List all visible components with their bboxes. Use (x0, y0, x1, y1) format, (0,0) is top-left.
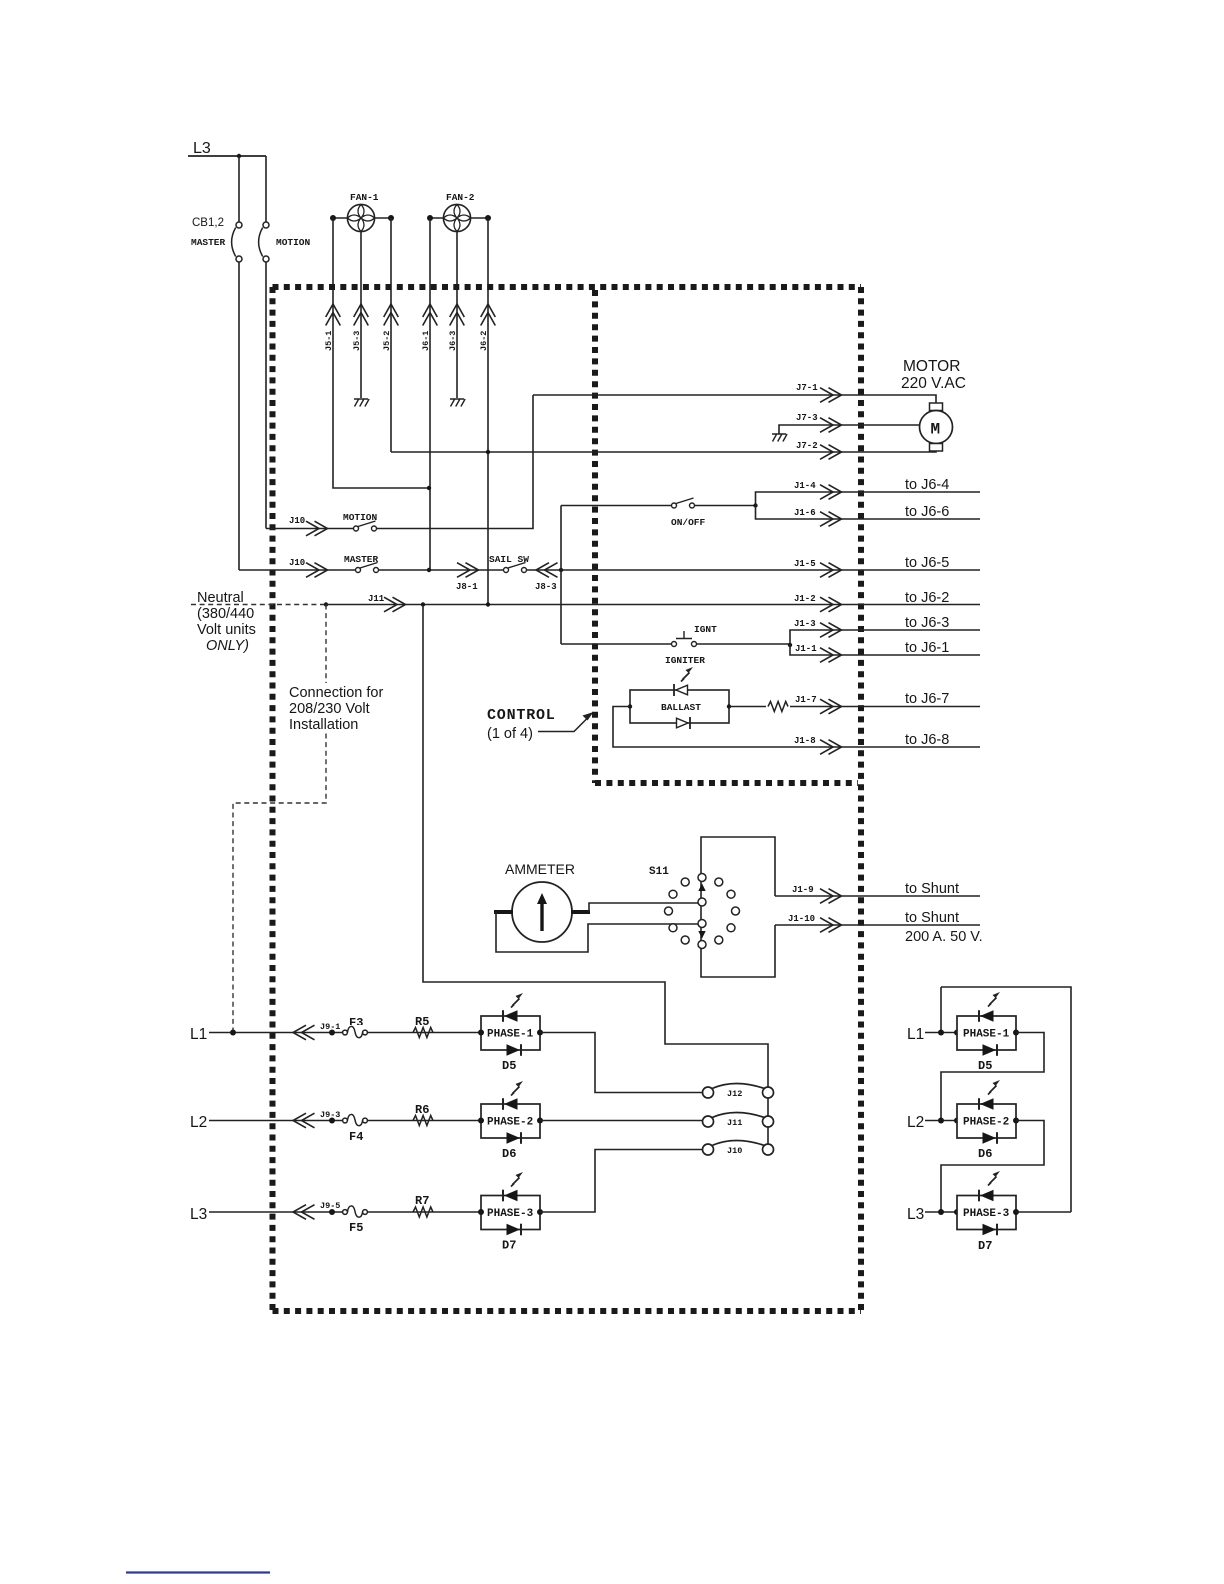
switch MOTION interlock (354, 521, 377, 531)
node ballast right (727, 704, 731, 708)
svg-text:Installation: Installation (289, 717, 358, 733)
wire neutral drop to jumper bus (423, 605, 768, 1088)
svg-text:J1-7: J1-7 (795, 695, 817, 705)
svg-text:PHASE-3: PHASE-3 (963, 1208, 1010, 1220)
svg-text:MOTION: MOTION (276, 237, 311, 248)
wire right diagram top chain (941, 987, 1071, 1212)
svg-text:L3: L3 (907, 1206, 924, 1223)
svg-text:to J6-6: to J6-6 (905, 504, 949, 520)
wire J5-1 column (333, 218, 429, 488)
wire J1-9 row (775, 895, 980, 897)
svg-text:J10: J10 (289, 516, 305, 526)
wire FAN-2 bus (430, 217, 488, 219)
svg-text:J7-3: J7-3 (796, 413, 818, 423)
node on/off branch junction (753, 503, 757, 507)
svg-text:to J6-7: to J6-7 (905, 691, 949, 707)
wire phase-3 right out (1016, 1211, 1071, 1213)
indicator arrow D5 (511, 993, 523, 1008)
wire master breaker to row (238, 262, 240, 570)
svg-text:AMMETER: AMMETER (505, 861, 575, 877)
wire master switch to sail switch (379, 569, 503, 571)
label Connection for 208/230 (286, 683, 382, 731)
fuse F5 (347, 1205, 364, 1220)
wire J6-1 column (429, 218, 431, 570)
enclosure dashed control divider vertical (592, 290, 598, 783)
svg-text:F5: F5 (349, 1221, 363, 1235)
svg-text:MASTER: MASTER (191, 237, 226, 248)
node neutral J6-2 junction (486, 602, 490, 606)
terminal ammeter right (571, 910, 590, 914)
node J5-1/J6-1 junction (427, 486, 431, 490)
svg-text:M: M (931, 421, 941, 439)
svg-text:J5-1: J5-1 (324, 331, 334, 351)
svg-text:PHASE-2: PHASE-2 (963, 1117, 1009, 1129)
svg-text:Volt units: Volt units (197, 622, 256, 638)
jumper J10 (703, 1141, 774, 1156)
svg-text:CB1,2: CB1,2 (192, 217, 224, 229)
svg-text:J1-1: J1-1 (795, 644, 817, 654)
svg-text:L3: L3 (193, 140, 211, 157)
svg-text:CONTROL: CONTROL (487, 707, 556, 724)
wire phase-3 out to J10 (540, 1150, 703, 1213)
node sail output junction (559, 568, 563, 572)
svg-text:J7-2: J7-2 (796, 441, 818, 451)
switch ON/OFF (672, 498, 695, 508)
svg-text:PHASE-3: PHASE-3 (487, 1208, 534, 1220)
svg-text:L1: L1 (907, 1026, 924, 1043)
diode ballast top (674, 684, 688, 696)
resistor ballast series (766, 699, 790, 714)
wire J1-4 row (756, 492, 981, 506)
svg-text:J8-3: J8-3 (535, 582, 557, 592)
svg-text:FAN-2: FAN-2 (446, 192, 475, 203)
jumper J11 (703, 1113, 774, 1128)
svg-text:to Shunt: to Shunt (905, 910, 959, 926)
svg-text:J10: J10 (727, 1146, 742, 1156)
pin J8-1 connector (457, 563, 479, 578)
wire FAN-1 bus (333, 217, 391, 219)
wire J1-1 row (790, 645, 980, 655)
svg-text:Neutral: Neutral (197, 590, 244, 606)
svg-text:(1 of 4): (1 of 4) (487, 726, 533, 742)
svg-text:R5: R5 (415, 1015, 429, 1029)
svg-text:208/230 Volt: 208/230 Volt (289, 701, 370, 717)
svg-text:ONLY): ONLY) (206, 638, 249, 654)
module PHASE-1 left (481, 1010, 540, 1056)
svg-text:L2: L2 (190, 1114, 207, 1131)
svg-text:to J6-3: to J6-3 (905, 615, 949, 631)
svg-text:PHASE-1: PHASE-1 (487, 1029, 534, 1041)
svg-text:D6: D6 (978, 1147, 992, 1161)
wire L2 row (209, 1120, 481, 1122)
wire J1-3 row (790, 630, 980, 645)
pin J9-5 connector (293, 1205, 315, 1220)
svg-text:J11: J11 (727, 1118, 742, 1128)
svg-text:L1: L1 (190, 1026, 207, 1043)
pin J8-3 connector (536, 563, 558, 578)
wire J5-2 column (390, 218, 392, 452)
wire L3 row (209, 1211, 481, 1213)
svg-text:J1-10: J1-10 (788, 914, 815, 924)
svg-text:BALLAST: BALLAST (661, 702, 701, 713)
wire J5-3 column (360, 232, 362, 399)
svg-text:D7: D7 (978, 1239, 992, 1253)
svg-text:L2: L2 (907, 1114, 924, 1131)
svg-text:J11: J11 (368, 594, 385, 604)
pin J6-3 connector (450, 304, 465, 326)
pin J6-1 connector (423, 304, 438, 326)
wire ammeter left loop to wiper B (496, 912, 699, 952)
wire on/off output (695, 505, 756, 507)
svg-text:D5: D5 (978, 1059, 992, 1073)
svg-text:J7-1: J7-1 (796, 383, 818, 393)
module PHASE-2 left (481, 1098, 540, 1144)
svg-text:J1-4: J1-4 (794, 481, 816, 491)
pin J9-1 connector (293, 1025, 315, 1040)
svg-text:D6: D6 (502, 1147, 516, 1161)
wire MASTER row left (239, 569, 355, 571)
switch IGNT pushbutton (672, 631, 697, 647)
svg-text:PHASE-1: PHASE-1 (963, 1029, 1010, 1041)
ground J7-3 (772, 434, 787, 442)
ground FAN-2 (450, 399, 465, 407)
wire sail junction riser (560, 506, 562, 645)
svg-text:MOTION: MOTION (343, 512, 378, 523)
wire L1 right row (925, 1032, 957, 1034)
svg-text:J12: J12 (727, 1089, 742, 1099)
svg-text:220 V.AC: 220 V.AC (901, 375, 966, 392)
enclosure dashed chassis box (273, 284, 862, 290)
breaker CB1 MASTER (232, 222, 242, 262)
wire J7-2 row (391, 451, 936, 452)
wire L1 row (209, 1032, 481, 1034)
svg-text:to J6-2: to J6-2 (905, 590, 949, 606)
svg-text:J5-2: J5-2 (382, 331, 392, 351)
svg-text:J6-3: J6-3 (448, 331, 458, 351)
wire MOTION row (266, 528, 353, 530)
wire L2 right row (925, 1120, 957, 1122)
wire J1-6 row (756, 506, 981, 520)
svg-text:R7: R7 (415, 1194, 429, 1208)
wire ammeter right to wiper A (589, 903, 699, 912)
wire motion switch to J7-1 riser (377, 395, 533, 529)
wire igniter output (697, 643, 791, 645)
terminal ammeter left (494, 910, 513, 914)
jumper J12 (703, 1084, 774, 1099)
svg-text:J6-2: J6-2 (479, 331, 489, 351)
node neutral drop junction (421, 602, 425, 606)
indicator arrow igniter (681, 667, 693, 682)
enclosure dashed control divider horizontal (595, 780, 858, 786)
wire motion breaker to row (265, 262, 267, 529)
indicator arrow D6 (511, 1081, 523, 1096)
svg-text:Connection for: Connection for (289, 685, 383, 701)
svg-text:F4: F4 (349, 1130, 363, 1144)
svg-text:J6-1: J6-1 (421, 331, 431, 351)
fuse F4 (347, 1113, 364, 1128)
breaker CB2 MOTION (259, 222, 269, 262)
diode ballast bottom (677, 717, 691, 729)
wire J1-8 row (613, 707, 980, 748)
wire CB2 drop from L3 (265, 156, 267, 222)
svg-text:J1-2: J1-2 (794, 594, 816, 604)
svg-text:to Shunt: to Shunt (905, 881, 959, 897)
pin J5-2 connector (384, 304, 399, 326)
node ballast left (628, 704, 632, 708)
indicator arrow D5 right (988, 992, 1000, 1007)
svg-text:J1-5: J1-5 (794, 559, 816, 569)
svg-text:PHASE-2: PHASE-2 (487, 1117, 533, 1129)
switch S11 wiper A (698, 898, 706, 906)
node J6-2/J7-2 junction (486, 450, 490, 454)
wire L3 bus (188, 155, 266, 157)
switch MASTER interlock (356, 563, 379, 573)
wire J7-1 row to motor (533, 395, 936, 403)
wire J7-3 row (779, 425, 920, 434)
wire L3 right row (925, 1211, 957, 1213)
svg-text:D5: D5 (502, 1059, 516, 1073)
indicator arrow D7 right (988, 1171, 1000, 1186)
svg-text:ON/OFF: ON/OFF (671, 517, 706, 528)
svg-text:MOTOR: MOTOR (903, 358, 960, 375)
svg-text:J1-3: J1-3 (794, 619, 816, 629)
wire phase-2 right out (941, 1121, 1044, 1213)
svg-text:IGNT: IGNT (694, 624, 717, 635)
wire phase-1 out to J12 (540, 1033, 703, 1093)
svg-text:J1-8: J1-8 (794, 736, 816, 746)
module PHASE-3 right (957, 1190, 1016, 1236)
wire J6-3 column (456, 232, 458, 399)
svg-text:to J6-5: to J6-5 (905, 555, 949, 571)
indicator arrow D6 right (988, 1080, 1000, 1095)
wire phase-1 right out (941, 1033, 1044, 1121)
svg-text:to J6-1: to J6-1 (905, 640, 949, 656)
svg-text:J1-9: J1-9 (792, 885, 814, 895)
wire phase-2 out to J11 (540, 1120, 703, 1122)
svg-text:to J6-8: to J6-8 (905, 732, 949, 748)
wire J1-10 row (775, 924, 980, 926)
wire J6-2 column (487, 218, 489, 605)
node master/J6-1 junction (427, 568, 431, 572)
footer rule (126, 1571, 270, 1573)
node neutral tap (324, 602, 328, 606)
wire IGNT row (561, 643, 671, 645)
module PHASE-1 right (957, 1010, 1016, 1056)
ballast module (630, 690, 729, 723)
pin J6-2 connector (481, 304, 496, 326)
svg-text:200 A. 50 V.: 200 A. 50 V. (905, 929, 983, 945)
wire neutral J1-2 row (326, 604, 980, 606)
svg-text:R6: R6 (415, 1103, 429, 1117)
svg-text:IGNITER: IGNITER (665, 655, 705, 666)
module PHASE-3 left (481, 1190, 540, 1236)
wire CB1 drop from L3 (238, 156, 240, 222)
indicator arrow D7 (511, 1172, 523, 1187)
svg-text:S11: S11 (649, 866, 669, 878)
svg-text:J5-3: J5-3 (352, 331, 362, 351)
pin J9-3 connector (293, 1113, 315, 1128)
svg-text:to J6-4: to J6-4 (905, 477, 949, 493)
svg-text:(380/440: (380/440 (197, 606, 254, 622)
wire connection dashed drop (233, 605, 326, 1033)
ground FAN-1 (354, 399, 369, 407)
switch S11 wiper B (698, 920, 706, 928)
wire J1-7 row (729, 706, 980, 708)
svg-text:MASTER: MASTER (344, 554, 379, 565)
svg-text:J9-5: J9-5 (320, 1201, 340, 1211)
node igniter branch junction (788, 643, 792, 647)
svg-text:J8-1: J8-1 (456, 582, 478, 592)
switch S11 contact ring (665, 874, 740, 949)
module PHASE-2 right (957, 1098, 1016, 1144)
wire neutral dashed lead (191, 604, 326, 606)
wire sail switch to J1-5 row (526, 569, 980, 571)
node L1 dashed tap (230, 1030, 236, 1036)
wire ON/OFF row (561, 505, 671, 507)
pin J5-1 connector (326, 304, 341, 326)
wire jumper bus links (767, 1098, 769, 1144)
wire control pointer (538, 717, 589, 732)
pin J5-3 connector (354, 304, 369, 326)
svg-text:J1-6: J1-6 (794, 508, 816, 518)
svg-text:FAN-1: FAN-1 (350, 192, 379, 203)
svg-text:J10: J10 (289, 558, 305, 568)
node L3 tap junction (237, 154, 241, 158)
svg-text:D7: D7 (502, 1239, 516, 1253)
svg-text:L3: L3 (190, 1206, 207, 1223)
